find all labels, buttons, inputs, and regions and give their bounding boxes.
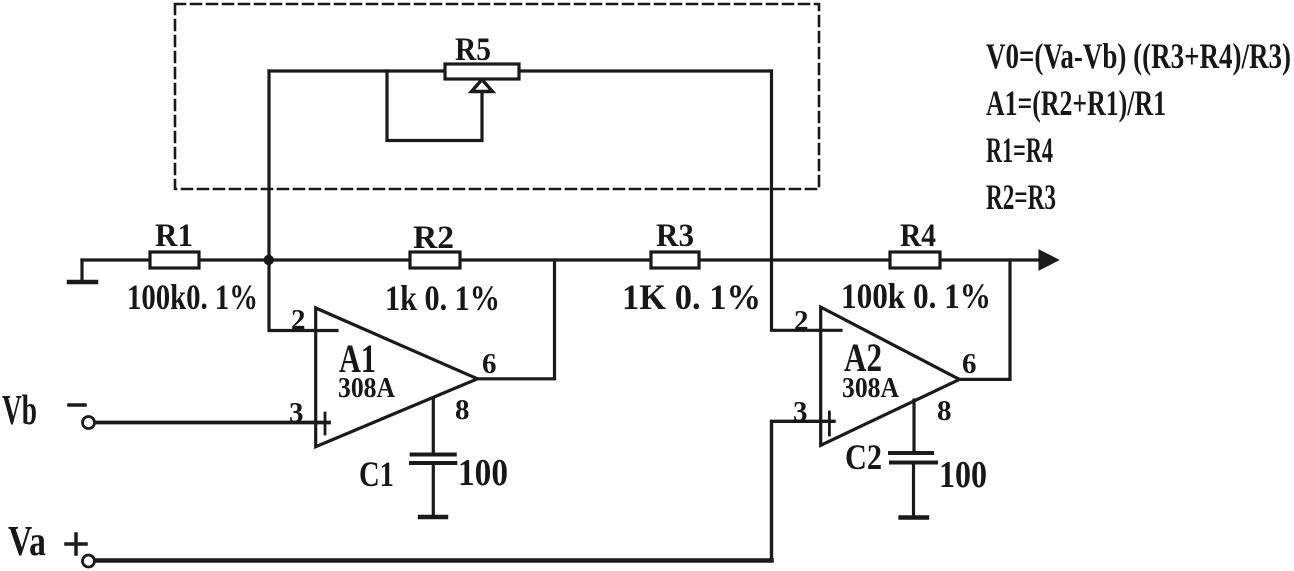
terminal Vb minus sign [69, 403, 85, 407]
svg-text:A1=(R2+R1)/R1: A1=(R2+R1)/R1 [986, 83, 1166, 123]
svg-text:C2: C2 [845, 437, 882, 477]
svg-text:Va: Va [8, 519, 46, 565]
svg-text:3: 3 [289, 397, 304, 429]
svg-text:R2: R2 [413, 220, 454, 256]
wire Va horizontal [95, 558, 772, 563]
capacitor C1 bottom lead [432, 465, 435, 515]
svg-text:100: 100 [939, 454, 987, 496]
svg-text:C1: C1 [359, 454, 394, 494]
terminal Va plus sign [66, 542, 86, 546]
resistor R3 [651, 252, 699, 268]
svg-text:100: 100 [458, 452, 508, 494]
svg-text:2: 2 [291, 304, 306, 336]
output arrow [1039, 250, 1059, 270]
capacitor C2 top lead (pin 8) [912, 400, 915, 451]
op-amp A1 inverting input stub [315, 329, 337, 332]
svg-text:100k 0. 1%: 100k 0. 1% [841, 276, 991, 316]
op-amp A1 triangle [316, 308, 478, 447]
wire right vertical from R5 to A2 pin2 node [772, 71, 842, 330]
resistor R2 [410, 252, 460, 268]
svg-text:1K 0. 1%: 1K 0. 1% [622, 277, 761, 317]
op-amp A2 triangle [821, 307, 960, 445]
ground terminal left [80, 260, 83, 281]
svg-text:6: 6 [962, 348, 977, 380]
svg-text:R1=R4: R1=R4 [986, 130, 1053, 170]
resistor R1 [150, 252, 199, 268]
capacitor C2 bottom lead [912, 465, 915, 516]
terminal Va circle [83, 555, 95, 567]
svg-text:100k0. 1%: 100k0. 1% [127, 277, 258, 317]
potentiometer R5 body [445, 64, 519, 79]
wire Va riser to A2 pin3 [772, 421, 835, 560]
op-amp A2 inverting input stub [820, 329, 841, 332]
terminal Vb circle [83, 417, 95, 429]
wire left vertical from R5 to A1 pin2 node [269, 71, 336, 331]
capacitor C1 ground bar [420, 515, 446, 520]
dashed enclosure box [175, 4, 819, 189]
potentiometer R5 wiper arrow [472, 80, 493, 92]
wire A2 output to main line [960, 260, 1011, 379]
capacitor C2 plates [890, 451, 932, 455]
wire wiper loop [387, 71, 482, 141]
wire Vb to A1 pin3 [95, 421, 329, 425]
svg-text:Vb: Vb [2, 388, 37, 434]
capacitor C1 top lead (pin 8) [432, 398, 435, 453]
resistor R4 [890, 252, 940, 268]
op-amp A2 plus marker [828, 412, 831, 435]
svg-text:308A: 308A [338, 373, 396, 404]
wire R5 top horizontal [269, 69, 771, 72]
svg-text:3: 3 [793, 396, 808, 428]
svg-text:2: 2 [794, 305, 809, 337]
capacitor C1 plates [412, 453, 455, 457]
op-amp A1 plus marker [324, 413, 327, 434]
svg-text:R3: R3 [656, 218, 694, 254]
svg-text:6: 6 [482, 348, 497, 380]
svg-text:V0=(Va-Vb) ((R3+R4)/R3): V0=(Va-Vb) ((R3+R4)/R3) [986, 36, 1291, 76]
svg-text:8: 8 [455, 394, 470, 426]
svg-text:308A: 308A [842, 373, 900, 404]
svg-text:R4: R4 [900, 218, 936, 254]
node junction dot R1-R2 [264, 255, 274, 265]
wire main line [82, 258, 1047, 261]
wire A1 output to main line [478, 260, 555, 379]
svg-text:R2=R3: R2=R3 [986, 177, 1056, 217]
svg-text:R5: R5 [455, 32, 491, 68]
svg-text:1k 0. 1%: 1k 0. 1% [385, 278, 500, 318]
svg-text:R1: R1 [155, 218, 193, 254]
svg-text:8: 8 [937, 395, 952, 427]
capacitor C2 ground bar [901, 515, 927, 520]
